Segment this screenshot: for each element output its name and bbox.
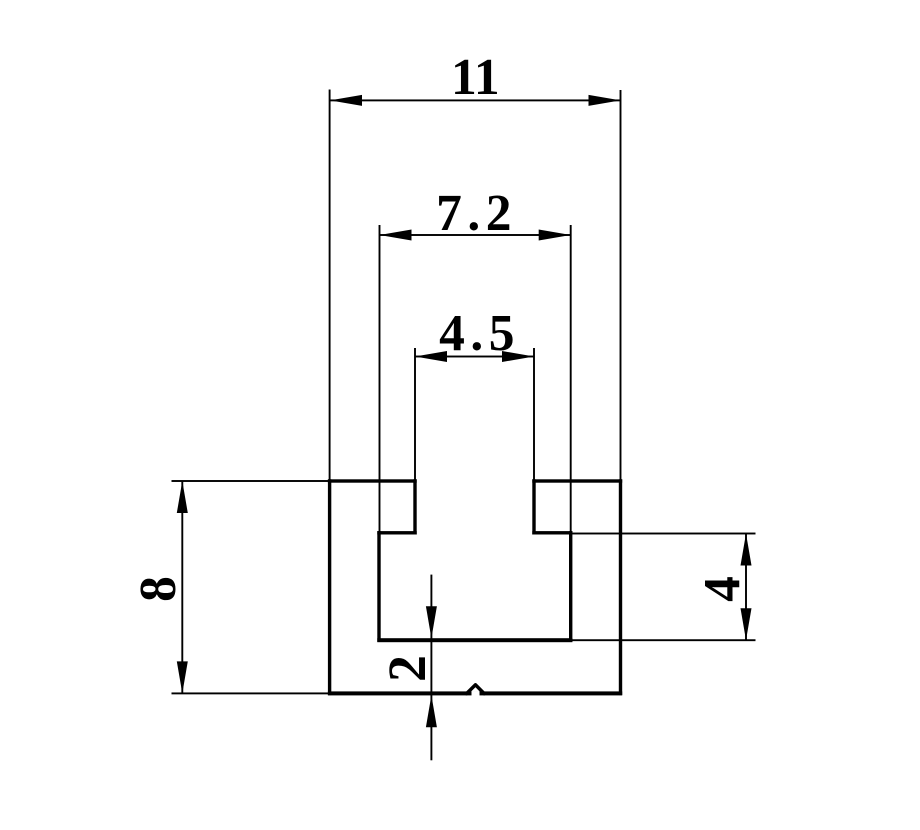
svg-text:2: 2 <box>377 655 437 682</box>
svg-text:4.5: 4.5 <box>439 305 520 362</box>
svg-text:11: 11 <box>451 49 500 106</box>
svg-text:4: 4 <box>694 576 751 602</box>
svg-text:8: 8 <box>130 576 187 602</box>
svg-text:7.2: 7.2 <box>436 185 517 242</box>
